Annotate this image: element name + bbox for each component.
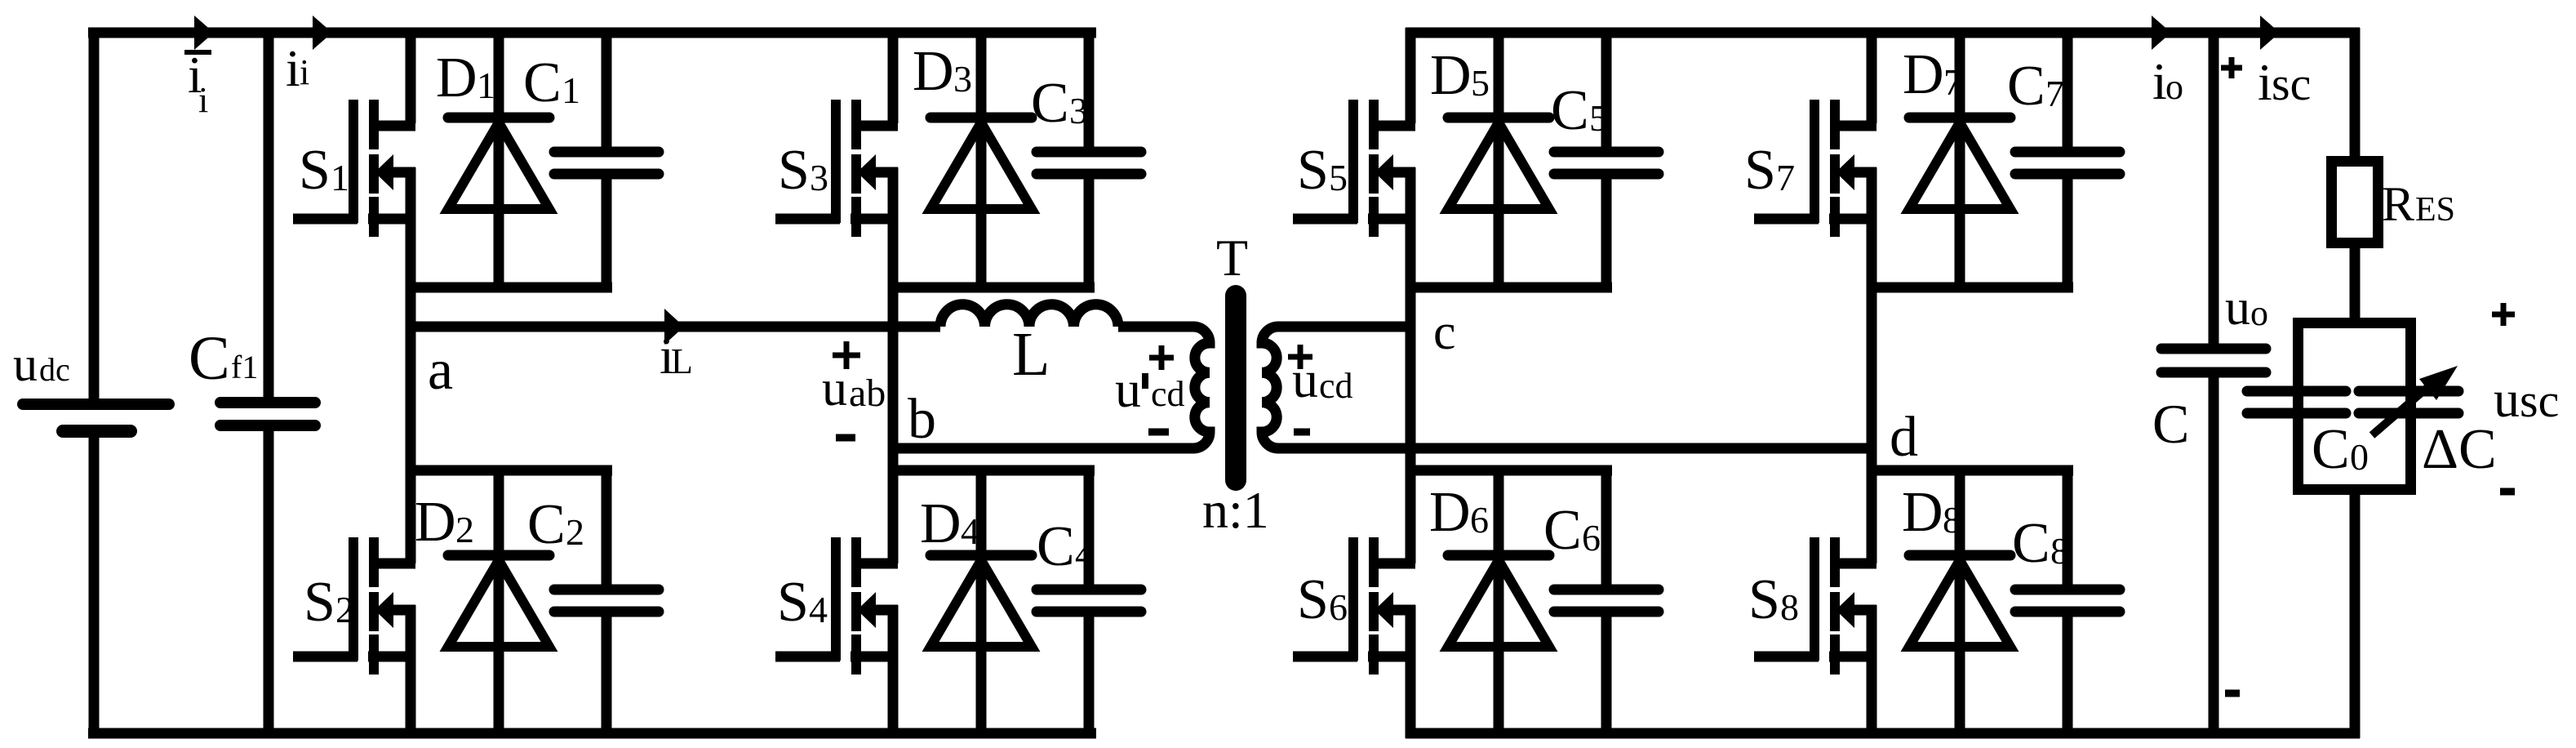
svg-text:C: C [523, 51, 562, 114]
label C0 [2312, 418, 2369, 481]
label RES [2382, 177, 2455, 231]
svg-text:R: R [2382, 177, 2414, 231]
capacitor C7 [2015, 28, 2120, 291]
label + output [2221, 57, 2242, 78]
wire leg S4 [888, 657, 899, 738]
svg-text:u: u [822, 361, 847, 416]
label S2 [304, 571, 354, 634]
svg-text:L: L [1012, 320, 1050, 389]
svg-text:2: 2 [455, 509, 474, 550]
label uo [2225, 280, 2268, 336]
arrow current io [2152, 16, 2171, 50]
svg-text:0: 0 [2350, 436, 2369, 478]
label +u'cd- [1115, 345, 1185, 432]
svg-text:1: 1 [331, 157, 349, 198]
svg-text:sc: sc [2520, 374, 2559, 427]
svg-text:S: S [1297, 568, 1329, 631]
svg-text:D: D [436, 47, 477, 109]
svg-text:C: C [2012, 512, 2050, 575]
svg-text:dc: dc [39, 351, 70, 388]
label S1 [299, 139, 349, 202]
svg-text:5: 5 [1471, 62, 1490, 104]
wire transformer to node d [1277, 443, 1876, 454]
svg-text:S: S [1744, 139, 1776, 202]
label D7 [1903, 43, 1962, 106]
svg-text:ΔC: ΔC [2422, 418, 2497, 481]
svg-text:3: 3 [1069, 90, 1088, 131]
label C8 [2012, 512, 2069, 575]
label D2 [415, 491, 474, 554]
transistor S7 [1754, 100, 1876, 237]
svg-text:6: 6 [1329, 586, 1348, 628]
wire top rail primary [88, 28, 1096, 38]
label isc [2258, 53, 2311, 111]
wire cell top S4 [888, 465, 1095, 476]
svg-text:S: S [299, 139, 331, 202]
svg-text:4: 4 [961, 510, 979, 552]
wire cell top S8 [1867, 465, 2073, 476]
svg-text:b: b [908, 388, 936, 451]
label S5 [1297, 139, 1348, 202]
capacitor C8 [2015, 465, 2120, 728]
label Cf1 [189, 324, 258, 393]
svg-text:a: a [428, 339, 453, 402]
capacitor Cf1 [220, 403, 315, 425]
transformer secondary winding [1262, 327, 1278, 448]
label C3 [1031, 72, 1088, 135]
label +ucd- [1288, 345, 1353, 432]
label D3 [913, 40, 972, 103]
diode D8 [1909, 465, 2010, 728]
svg-text:C: C [2152, 393, 2189, 455]
svg-text:u: u [2225, 280, 2250, 336]
svg-text:cd: cd [1319, 366, 1353, 406]
svg-text:ab: ab [849, 372, 886, 415]
label +uab- [822, 341, 886, 438]
wire cell top S2 [406, 465, 612, 476]
label udc [13, 337, 70, 391]
svg-text:D: D [920, 492, 962, 555]
wire leg S2 [406, 657, 416, 738]
label S6 [1297, 568, 1348, 631]
label i_i average with overbar [184, 46, 211, 120]
arrow variable capacitance [2372, 366, 2458, 435]
svg-text:5: 5 [1329, 157, 1348, 198]
transistor S8 [1754, 537, 1876, 675]
svg-text:C: C [189, 324, 230, 393]
capacitor C0 plates [2247, 391, 2346, 413]
svg-text:D: D [1902, 481, 1943, 544]
diode D2 [448, 465, 549, 728]
svg-text:i: i [2258, 53, 2272, 111]
svg-text:8: 8 [2050, 530, 2069, 572]
svg-text:D: D [1430, 44, 1472, 107]
svg-text:S: S [304, 571, 335, 634]
label D5 [1430, 44, 1490, 107]
transistor S2 [293, 537, 415, 675]
wire leg S8 [1867, 657, 1877, 738]
capacitor deltaC plates [2359, 391, 2458, 413]
label D4 [920, 492, 979, 555]
svg-text:ES: ES [2415, 191, 2455, 229]
wire leg S5 [1406, 28, 1416, 563]
wire cell bottom S5 [1406, 283, 1612, 293]
transformer T core [1225, 296, 1246, 480]
svg-text:8: 8 [1780, 586, 1799, 628]
arrow current isc [2260, 16, 2280, 50]
wire transformer to node c [1277, 322, 1415, 332]
svg-text:u: u [13, 337, 38, 391]
label C7 [2007, 55, 2064, 118]
svg-text:L: L [671, 341, 693, 381]
diode D6 [1448, 465, 1549, 728]
svg-text:d: d [1890, 406, 1918, 469]
svg-text:2: 2 [566, 511, 584, 553]
label io [2152, 52, 2183, 110]
svg-text:C: C [1551, 79, 1589, 142]
wire cell bottom S7 [1867, 283, 2073, 293]
svg-text:f1: f1 [231, 349, 258, 385]
svg-text:2: 2 [335, 589, 354, 630]
svg-text:6: 6 [1470, 499, 1489, 541]
svg-text:u: u [2494, 370, 2520, 428]
svg-text:8: 8 [1943, 499, 1961, 541]
svg-text:D: D [913, 40, 954, 103]
svg-text:3: 3 [953, 58, 972, 100]
supercapacitor box [2298, 323, 2411, 490]
label S4 [777, 571, 828, 634]
label D8 [1902, 481, 1961, 544]
diode D3 [930, 28, 1032, 291]
label C5 [1551, 79, 1608, 142]
svg-text:4: 4 [1075, 533, 1094, 575]
label D1 [436, 47, 495, 109]
wire node a to inductor [406, 322, 940, 332]
wire cell bottom S3 [888, 283, 1095, 293]
svg-text:C: C [1543, 499, 1582, 562]
transformer primary winding [1193, 327, 1210, 448]
label usc [2494, 370, 2559, 428]
wire cell bottom S1 [406, 283, 612, 293]
inductor L [940, 305, 1118, 327]
svg-text:7: 7 [2045, 73, 2064, 114]
wire cell top S6 [1406, 465, 1612, 476]
transistor S1 [293, 100, 415, 237]
capacitor C output [2161, 349, 2266, 372]
svg-text:1: 1 [477, 65, 495, 106]
capacitor C4 [1037, 465, 1141, 728]
wire leg S7 [1867, 28, 1877, 563]
label S8 [1748, 568, 1799, 631]
svg-text:C: C [1031, 72, 1069, 135]
label ii [286, 39, 309, 97]
svg-text:u: u [1115, 360, 1141, 418]
wire inductor to transformer [1118, 322, 1194, 332]
svg-text:4: 4 [809, 589, 828, 630]
label - usc [2500, 488, 2515, 496]
label D6 [1429, 481, 1489, 544]
transistor S6 [1293, 537, 1415, 675]
svg-text:C: C [2007, 55, 2045, 118]
svg-text:o: o [2165, 67, 2183, 107]
capacitor C3 [1037, 28, 1141, 291]
svg-text:S: S [1297, 139, 1329, 202]
svg-text:i: i [198, 80, 208, 120]
diode D7 [1909, 28, 2010, 291]
svg-text:D: D [415, 491, 456, 554]
svg-text:5: 5 [1589, 97, 1608, 139]
diode D1 [448, 28, 549, 291]
battery udc [23, 404, 169, 431]
wire leg S3 [888, 28, 899, 563]
capacitor C1 [554, 28, 659, 291]
wire supercap to bottom rail [2350, 489, 2361, 738]
label S3 [778, 139, 828, 202]
arrow current iL [664, 309, 684, 345]
label C1 [523, 51, 580, 114]
svg-text:i: i [286, 39, 300, 97]
label C6 [1543, 499, 1601, 562]
wire output cap branch [2209, 28, 2219, 738]
transistor S5 [1293, 100, 1415, 237]
svg-text:C: C [2312, 418, 2350, 481]
svg-text:u: u [1292, 350, 1318, 408]
svg-text:D: D [1429, 481, 1471, 544]
wire leg S1 [406, 28, 416, 563]
label iL [660, 327, 693, 385]
transistor S3 [775, 100, 898, 237]
capacitor C2 [554, 465, 659, 728]
svg-text:S: S [1748, 568, 1780, 631]
svg-text:1: 1 [562, 69, 580, 111]
arrow current i_i (average) [194, 16, 214, 50]
wire bottom rail primary [88, 728, 1096, 739]
label C4 [1037, 515, 1094, 578]
diode D4 [930, 465, 1032, 728]
svg-text:o: o [2250, 293, 2268, 333]
label + usc [2492, 303, 2515, 326]
svg-text:S: S [778, 139, 810, 202]
svg-text:n:1: n:1 [1202, 481, 1269, 539]
wire resistor to supercap [2350, 245, 2361, 328]
wire node b to transformer [888, 443, 1194, 454]
svg-text:C: C [527, 493, 566, 556]
svg-text:sc: sc [2272, 57, 2311, 110]
capacitor C6 [1554, 465, 1659, 728]
label - uo bottom [2225, 690, 2240, 697]
svg-text:D: D [1903, 43, 1944, 106]
svg-text:S: S [777, 571, 809, 634]
label C2 [527, 493, 584, 556]
svg-text:7: 7 [1776, 157, 1795, 198]
svg-text:7: 7 [1943, 61, 1962, 103]
capacitor C5 [1554, 28, 1659, 291]
resistor RES [2332, 162, 2378, 243]
label S7 [1744, 139, 1795, 202]
svg-text:T: T [1216, 229, 1248, 287]
wire battery branch [89, 28, 100, 738]
wire right branch top [2350, 28, 2361, 163]
svg-text:cd: cd [1151, 374, 1185, 414]
wire bottom rail secondary [1406, 728, 2360, 739]
transistor S4 [775, 537, 898, 675]
svg-text:c: c [1433, 305, 1456, 360]
wire leg S6 [1406, 657, 1416, 738]
svg-text:i: i [300, 52, 309, 92]
svg-text:3: 3 [810, 157, 828, 198]
arrow current ii [313, 16, 332, 50]
svg-text:6: 6 [1582, 517, 1601, 559]
wire top rail secondary [1406, 28, 2360, 38]
diode D5 [1448, 28, 1549, 291]
wire Cf1 branch [264, 28, 274, 738]
svg-text:C: C [1037, 515, 1075, 578]
